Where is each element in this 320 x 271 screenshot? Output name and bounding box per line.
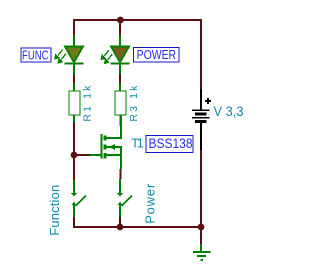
transistor T1 body arrow	[109, 144, 115, 150]
gate vertical	[101, 134, 103, 159]
label POWER	[134, 48, 180, 63]
junction bottom rail / battery	[198, 224, 205, 231]
gate lead	[90, 154, 102, 156]
wire R1 bottom to gate node	[73, 122, 75, 155]
source down	[120, 155, 122, 169]
svg-text:Power: Power	[143, 183, 158, 224]
svg-text:Function: Function	[47, 185, 62, 236]
resistor R3	[115, 83, 126, 126]
junction bottom rail / switch S2	[117, 224, 124, 231]
channel bar drain	[104, 136, 107, 141]
transistor T1 MOSFET BSS138	[90, 115, 121, 169]
LED D2 light arrows	[101, 50, 112, 63]
wire LED2 cathode to R3	[119, 74, 121, 83]
switch S2 Power	[117, 179, 132, 217]
svg-text:V 3,3: V 3,3	[214, 104, 244, 119]
svg-text:1: 1	[137, 137, 144, 151]
ground	[193, 244, 211, 260]
label FUNC	[21, 48, 51, 62]
LED D2 (POWER)	[111, 35, 130, 74]
wire bottom rail GND	[73, 226, 201, 228]
wire top rail VCC	[74, 19, 201, 21]
channel bar source	[104, 153, 107, 159]
battery V1 3.3V	[192, 89, 210, 150]
body lead with arrow	[107, 147, 122, 155]
svg-text:R1 1k: R1 1k	[82, 85, 94, 122]
wire middle drop to LED2 anode	[119, 20, 121, 35]
junction gate node	[71, 152, 78, 159]
svg-text:BSS138: BSS138	[149, 136, 193, 151]
wire right drop to battery plus	[200, 19, 202, 89]
resistor R1	[69, 83, 80, 122]
junction top rail / LED2 branch	[117, 17, 124, 24]
switch S1 Function	[71, 180, 86, 217]
wire LED1 cathode to R1	[73, 75, 75, 83]
LED D1 (FUNC)	[65, 35, 84, 75]
source lead	[107, 154, 122, 156]
LED D1 light arrows	[55, 50, 66, 63]
wire bottom rail to ground symbol	[200, 227, 202, 244]
wire switch S2 to bottom rail	[119, 217, 121, 227]
svg-text:POWER: POWER	[137, 48, 177, 62]
wire gate node down to switch S1	[73, 155, 75, 180]
svg-text:FUNC: FUNC	[22, 48, 49, 62]
battery plus sign	[205, 98, 211, 104]
svg-text:R3 1k: R3 1k	[128, 85, 140, 122]
drain lead	[107, 115, 122, 138]
wire left drop to LED1 anode	[73, 19, 75, 35]
channel bar body	[104, 145, 107, 150]
wire MOSFET source to switch S2	[120, 169, 122, 179]
wire gate node to MOSFET gate	[74, 154, 90, 156]
label BSS138	[146, 136, 193, 153]
wire battery minus to bottom rail	[200, 150, 202, 227]
wire switch S1 to bottom rail	[73, 217, 75, 227]
